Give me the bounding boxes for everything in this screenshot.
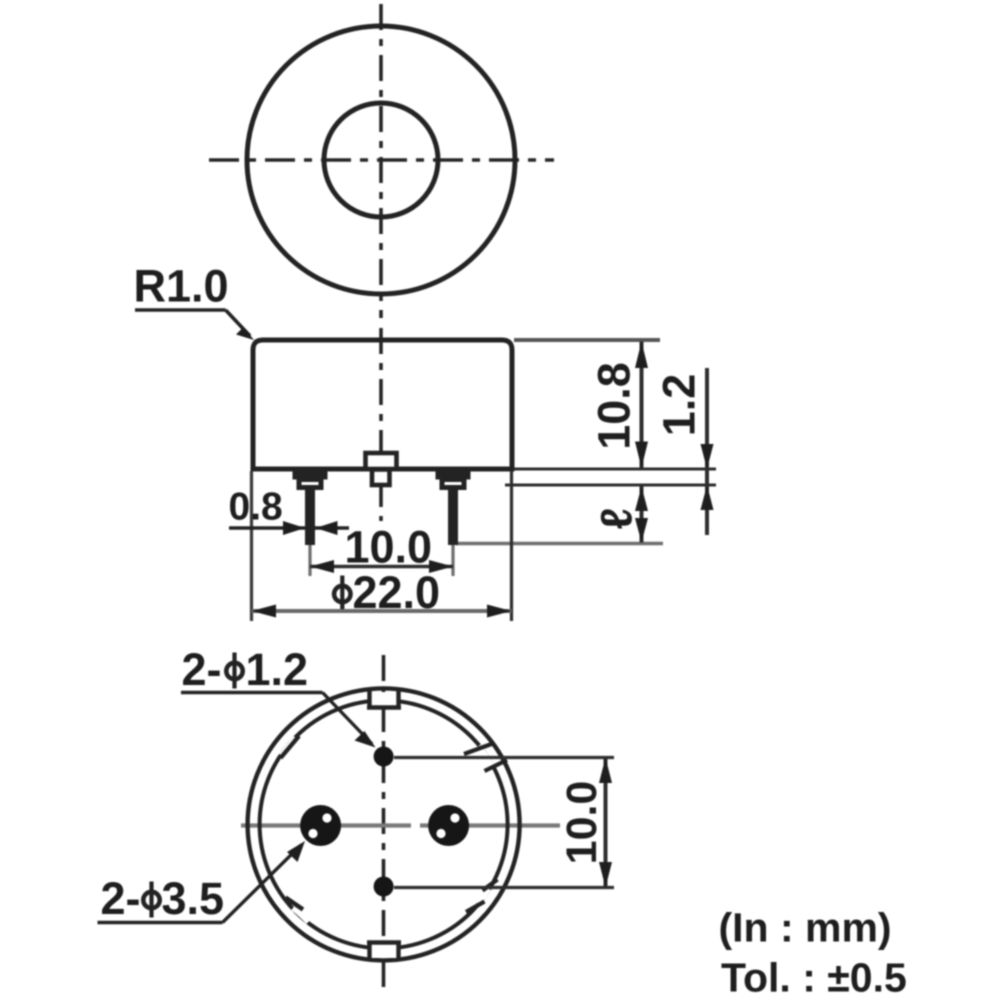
dim 10.0 side view	[310, 522, 453, 574]
ring break upper-left	[281, 736, 300, 758]
svg-text:0.8: 0.8	[229, 486, 283, 529]
dim phi22.0	[252, 567, 512, 618]
top view outer circle	[247, 26, 515, 294]
bottom view outer circle	[248, 688, 520, 960]
side view bottom edge extension line	[514, 468, 716, 471]
side view vertical centerline	[379, 328, 383, 521]
bottom view horizontal centerline	[241, 823, 560, 827]
label 2-phi1.2	[181, 644, 376, 748]
side view base bottom extension line (1.2 lower)	[505, 484, 716, 487]
svg-text:R1.0: R1.0	[134, 261, 229, 312]
svg-text:2-: 2-	[182, 644, 222, 695]
dim 1.2	[654, 368, 714, 535]
dim 10.8	[589, 342, 649, 469]
right pin extension below	[451, 545, 454, 576]
dim 10.0 bottom view	[558, 758, 612, 888]
bottom view vertical centerline	[382, 655, 386, 992]
right pin shaft	[448, 487, 458, 545]
bottom view inner circle	[260, 700, 508, 948]
svg-text:(In : mm): (In : mm)	[719, 905, 892, 951]
top view vertical centerline	[379, 4, 383, 318]
R1.0 label	[134, 261, 255, 341]
svg-text:10.0: 10.0	[558, 781, 606, 865]
side view pin tip extension line	[456, 542, 663, 545]
phi3.5 hole right	[428, 805, 469, 846]
phi22 left extension line	[250, 471, 253, 621]
svg-text:2-: 2-	[101, 873, 141, 924]
dim 0.8	[229, 486, 350, 536]
svg-text:10.8: 10.8	[589, 362, 640, 450]
center tab upper box	[366, 453, 397, 469]
svg-text:3.5: 3.5	[162, 873, 225, 924]
dim l (pin length)	[593, 487, 649, 543]
top view inner circle	[324, 103, 438, 217]
ring break upper-right	[464, 744, 507, 771]
left pin shaft	[305, 487, 315, 545]
svg-text:1.2: 1.2	[246, 644, 309, 695]
ring break lower-left	[286, 898, 310, 922]
svg-text:ℓ: ℓ	[593, 508, 642, 530]
right pin head	[436, 470, 471, 488]
phi3.5 hole left	[300, 805, 341, 846]
side view top edge extension line	[514, 338, 660, 342]
phi1.2 hole top	[374, 747, 394, 767]
top tab of ring	[367, 689, 401, 708]
left pin head	[293, 470, 328, 488]
extension line from top hole	[394, 756, 614, 759]
svg-text:Tol. : ±0.5: Tol. : ±0.5	[721, 955, 907, 1000]
label 2-phi3.5	[98, 841, 306, 924]
phi1.2 hole bottom	[374, 877, 394, 897]
svg-text:1.2: 1.2	[654, 374, 705, 437]
top view horizontal centerline	[209, 158, 554, 162]
phi22 right extension line	[510, 471, 513, 621]
bottom tab of ring	[367, 943, 401, 961]
extension line from bottom hole	[394, 886, 614, 889]
ring break lower-right	[466, 880, 498, 913]
left pin extension below	[308, 545, 311, 576]
side view body rectangle	[253, 340, 512, 469]
center tab lower box	[372, 470, 390, 486]
